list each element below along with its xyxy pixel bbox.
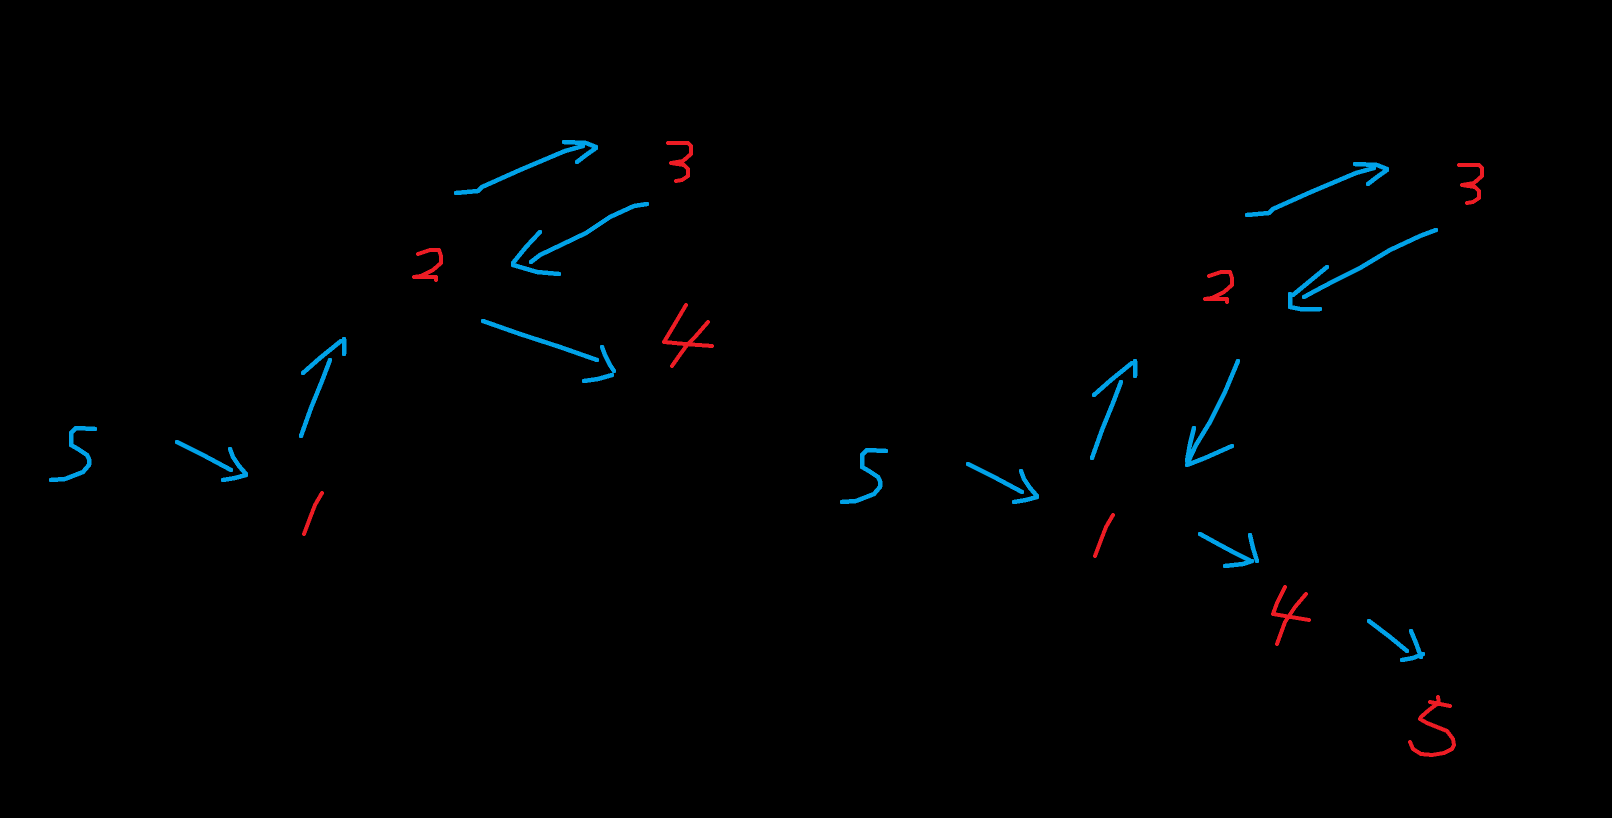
arrow 5-to-1 (right) head barb	[1021, 471, 1037, 496]
arrow 1-to-2 (right) head barb	[1094, 363, 1132, 395]
arrow 3-to-2 (right) head barb	[1293, 267, 1327, 295]
arrow 1-to-2 (left) head tick	[342, 339, 347, 354]
arrow 3-to-2 (right) head curl	[1290, 294, 1320, 309]
node 1 (right, red)	[1095, 515, 1113, 556]
arrow 1-to-4 (right) shaft	[1200, 534, 1249, 560]
arrow 3-to-2 (left) head sweep	[513, 265, 559, 274]
arrow 1-to-4 (right) head barb	[1250, 535, 1257, 561]
arrow 3-to-2 (right) shaft	[1304, 230, 1436, 297]
arrow 5-to-1 (right) head sweep	[1014, 497, 1037, 502]
arrow 2-to-1 (right) shaft	[1189, 361, 1238, 460]
arrow 1-to-2 (right) shaft	[1092, 382, 1121, 458]
arrow 2-to-3 (right) shaft	[1247, 168, 1374, 215]
arrow 1-to-4 (right) head sweep	[1225, 561, 1252, 566]
arrow 5-to-1 (left) shaft	[177, 442, 231, 470]
arrow 2-to-4 (left) shaft	[483, 321, 597, 360]
node 1 (left, red)	[304, 493, 322, 534]
arrow 2-to-3 (left) head top barb	[564, 142, 596, 147]
node 5 (right, red) tick horizontal	[1430, 702, 1450, 706]
node 3 (left, red)	[668, 143, 691, 181]
arrow 4-to-5 (right) head sweep	[1402, 654, 1423, 660]
arrow 2-to-3 (left) head bottom barb	[577, 148, 596, 162]
arrow 2-to-3 (right) head top barb	[1355, 164, 1387, 169]
arrow 4-to-5 (right) head barb	[1411, 631, 1421, 657]
arrow 3-to-2 (left) head barb	[513, 232, 540, 263]
node 5 (right, blue S)	[842, 450, 886, 502]
arrow 2-to-4 (left) head sweep	[584, 375, 612, 381]
node 2 (right, red)	[1205, 272, 1232, 302]
arrow 1-to-2 (left) head barb	[303, 341, 341, 373]
node 4 (left, red) stroke 1	[664, 305, 712, 346]
arrow 1-to-2 (right) head tick	[1133, 361, 1138, 376]
node 2 (left, red)	[414, 250, 441, 280]
arrow 5-to-1 (left) head sweep	[223, 475, 246, 480]
node 4 (left, red) stroke 2	[672, 322, 708, 366]
node 5 (left, blue S)	[51, 428, 95, 480]
node 4 (right, red) stroke 1	[1273, 587, 1309, 620]
arrow 2-to-3 (right) head bottom barb	[1368, 170, 1387, 184]
node 4 (right, red) stroke 2	[1277, 594, 1306, 644]
node 5 (right, red) body	[1410, 704, 1454, 755]
arrow 2-to-1 (right) head sweep	[1187, 446, 1232, 465]
arrow 2-to-4 (left) head barb	[602, 347, 614, 371]
arrow 4-to-5 (right) shaft	[1369, 621, 1407, 651]
node 5 (right, red) tick vertical	[1438, 697, 1439, 704]
arrow 5-to-1 (right) shaft	[968, 464, 1022, 492]
node 3 (right, red)	[1459, 165, 1482, 203]
arrow 2-to-3 (left) shaft	[456, 146, 583, 193]
arrow 1-to-2 (left) shaft	[301, 360, 330, 436]
left diagram	[51, 142, 712, 534]
right diagram: unique part	[1187, 230, 1454, 755]
right diagram: copied part	[842, 164, 1482, 556]
arrow 5-to-1 (left) head barb	[230, 449, 246, 474]
arrow 3-to-2 (left) shaft	[531, 204, 647, 262]
arrow 2-to-1 (right) head barb	[1187, 428, 1194, 461]
